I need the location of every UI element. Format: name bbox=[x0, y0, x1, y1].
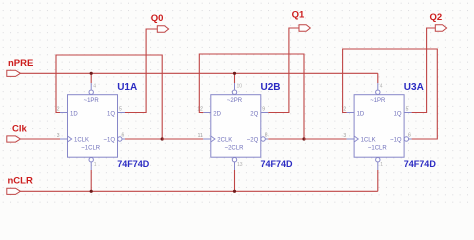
junction on nPRE rail at U2B bbox=[233, 72, 236, 75]
wire Q0 net: 1Q of U1A up to port bbox=[125, 29, 157, 113]
svg-text:Q2: Q2 bbox=[430, 12, 443, 23]
svg-text:10: 10 bbox=[237, 84, 243, 90]
wire nCLR to U2B clear pin bbox=[234, 170, 236, 191]
pin ~2PR of U2B (vertical stub) bbox=[234, 83, 236, 90]
svg-text:2CLK: 2CLK bbox=[217, 138, 232, 144]
pin ~1CLR of U1A (vertical stub) bbox=[90, 162, 92, 170]
svg-text:4: 4 bbox=[380, 84, 383, 90]
svg-text:~1PR: ~1PR bbox=[370, 98, 386, 104]
svg-text:~1CLR: ~1CLR bbox=[81, 145, 101, 151]
pin ~2CLR of U2B (vertical stub) bbox=[234, 162, 236, 170]
svg-text:Clk: Clk bbox=[12, 124, 28, 135]
port nPRE bbox=[7, 58, 34, 77]
pin ~1CLR of U3A (vertical stub) bbox=[377, 162, 379, 170]
svg-text:Q1: Q1 bbox=[292, 9, 305, 20]
svg-text:U2B: U2B bbox=[261, 82, 281, 93]
junction on nPRE rail at U1A bbox=[90, 72, 93, 75]
flip-flop U1A 74F74D body bbox=[60, 90, 125, 162]
pin ~1PR of U1A (vertical stub) bbox=[90, 83, 92, 90]
flip-flop U3A 74F74D body bbox=[347, 90, 412, 162]
wire nPRE to U3A preset pin bbox=[377, 73, 379, 83]
wire nPRE to U2B preset pin bbox=[234, 73, 236, 83]
svg-text:5: 5 bbox=[119, 107, 122, 113]
port nCLR bbox=[7, 176, 33, 195]
svg-text:2D: 2D bbox=[213, 112, 221, 118]
svg-text:1D: 1D bbox=[357, 112, 365, 118]
svg-text:74F74D: 74F74D bbox=[404, 159, 437, 169]
wire nPRE rail bbox=[20, 72, 377, 74]
svg-text:nPRE: nPRE bbox=[8, 58, 33, 69]
svg-text:1Q: 1Q bbox=[107, 112, 115, 118]
port Q2 bbox=[430, 12, 447, 31]
junction on nCLR rail at U1A bbox=[90, 190, 93, 193]
svg-text:1: 1 bbox=[380, 162, 383, 168]
svg-text:~2CLR: ~2CLR bbox=[225, 145, 245, 151]
svg-text:74F74D: 74F74D bbox=[117, 159, 150, 169]
port Q0 bbox=[151, 13, 169, 32]
wire nCLR to U3A clear pin bbox=[377, 170, 379, 191]
svg-text:6: 6 bbox=[122, 133, 125, 139]
junction on nCLR rail at U2B bbox=[233, 190, 236, 193]
svg-text:nCLR: nCLR bbox=[8, 176, 33, 187]
svg-text:1: 1 bbox=[94, 162, 97, 168]
svg-text:~1CLR: ~1CLR bbox=[368, 145, 388, 151]
wire ~2Q of U2B to clock of U3A bbox=[304, 138, 347, 140]
wire nCLR to U1A clear pin bbox=[90, 170, 92, 191]
wire nPRE to U1A preset pin bbox=[90, 73, 92, 83]
wire ~1Q of U1A to clock of U2B bbox=[162, 138, 203, 140]
svg-text:4: 4 bbox=[93, 84, 96, 90]
junction ~Q of U2B to next clock bbox=[302, 137, 305, 140]
port Q1 bbox=[292, 9, 311, 31]
svg-text:U3A: U3A bbox=[404, 82, 424, 93]
wire feedback ~1Q of U1A to 1D (around top) bbox=[56, 55, 162, 139]
svg-text:1CLK: 1CLK bbox=[74, 138, 89, 144]
port Clk bbox=[7, 124, 28, 143]
svg-text:8: 8 bbox=[265, 133, 268, 139]
svg-text:3: 3 bbox=[57, 133, 60, 139]
flip-flop U2B 74F74D body bbox=[203, 90, 268, 162]
svg-text:~2Q: ~2Q bbox=[247, 138, 259, 144]
junction ~Q of U1A to next clock bbox=[161, 137, 164, 140]
svg-text:~1PR: ~1PR bbox=[84, 98, 100, 104]
wire feedback ~1Q of U3A to 1D (around top) bbox=[343, 49, 438, 139]
svg-text:11: 11 bbox=[198, 133, 203, 139]
svg-text:6: 6 bbox=[408, 133, 411, 139]
svg-text:Q0: Q0 bbox=[151, 13, 164, 24]
wire Q2 net: 1Q of U3A up to port bbox=[412, 28, 436, 113]
svg-text:1Q: 1Q bbox=[394, 112, 402, 118]
wire Clk to U1A clock bbox=[20, 138, 60, 140]
svg-text:9: 9 bbox=[262, 107, 265, 113]
svg-text:3: 3 bbox=[343, 133, 346, 139]
svg-text:1D: 1D bbox=[70, 112, 78, 118]
wire Q1 net: 2Q of U2B up to port bbox=[268, 28, 299, 113]
svg-text:2Q: 2Q bbox=[250, 112, 258, 118]
svg-text:~1Q: ~1Q bbox=[103, 138, 115, 144]
wire feedback ~2Q of U2B to 2D (around top) bbox=[199, 54, 304, 139]
wire nCLR rail bbox=[20, 190, 377, 192]
svg-text:~1Q: ~1Q bbox=[390, 138, 402, 144]
svg-text:U1A: U1A bbox=[117, 82, 137, 93]
pin ~1PR of U3A (vertical stub) bbox=[377, 83, 379, 90]
svg-text:2: 2 bbox=[57, 107, 60, 113]
svg-text:74F74D: 74F74D bbox=[261, 159, 294, 169]
svg-text:13: 13 bbox=[237, 162, 243, 168]
svg-text:5: 5 bbox=[406, 107, 409, 113]
svg-text:12: 12 bbox=[197, 107, 203, 113]
svg-text:~2PR: ~2PR bbox=[227, 98, 243, 104]
svg-text:1CLK: 1CLK bbox=[361, 138, 376, 144]
svg-text:2: 2 bbox=[343, 107, 346, 113]
